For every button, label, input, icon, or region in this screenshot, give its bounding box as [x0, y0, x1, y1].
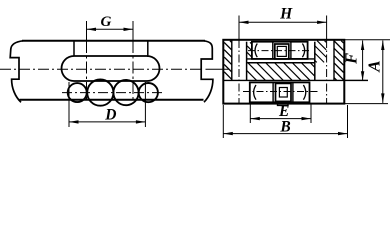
outer box	[223, 40, 344, 104]
nut left chamfer arc	[254, 85, 256, 100]
head facet line left	[272, 42, 274, 59]
bolt centerline left	[86, 21, 88, 41]
dimension B extension lines	[222, 105, 224, 138]
left wall inner step	[231, 40, 233, 81]
head right chamfer arc	[302, 44, 304, 58]
recess wall / belt left edge	[246, 42, 248, 81]
dimension E extension lines	[249, 104, 251, 123]
bottom edge extension right (A)	[344, 103, 388, 105]
dimension H line	[239, 21, 327, 23]
bolt centerline right	[132, 21, 134, 41]
belt block hatch	[311, 63, 315, 67]
head facet line right	[290, 42, 292, 59]
head centerline	[248, 50, 311, 52]
svg-text:G: G	[100, 14, 111, 30]
head left chamfer arc	[255, 44, 257, 58]
nut facet line right	[292, 82, 294, 102]
belt bottom edge	[20, 99, 204, 101]
coil circle 1	[68, 83, 87, 102]
coil circle 4	[139, 83, 158, 102]
head ledge line	[247, 58, 315, 60]
top edge extension right (F/A)	[344, 39, 390, 41]
head square outer	[275, 44, 289, 59]
coil circle 2	[87, 80, 113, 106]
svg-text:H: H	[279, 6, 293, 23]
bolt tip below	[278, 102, 289, 105]
nut square outer	[276, 83, 292, 101]
dimension H extension right	[326, 16, 328, 41]
top flank hatch left	[250, 42, 252, 44]
bolt head outline	[252, 42, 308, 59]
dimension H extension left	[238, 16, 240, 41]
inner wall line right (H extension, dash-dot)	[326, 40, 328, 104]
recess wall / belt right edge	[314, 42, 316, 81]
circle row centerline	[62, 92, 162, 94]
svg-text:A: A	[365, 60, 384, 72]
plate right tab edge	[147, 41, 149, 57]
nut outline	[250, 82, 310, 102]
belt top edge	[22, 40, 205, 42]
dimension D extension lines	[68, 82, 70, 127]
svg-text:D: D	[104, 106, 116, 123]
dimension D line	[69, 121, 145, 123]
plate left tab edge	[73, 41, 75, 56]
coil circle 3	[113, 80, 138, 105]
dimension B line	[223, 133, 347, 135]
left wall hatch	[230, 41, 232, 43]
belt top edge	[247, 62, 315, 64]
inner wall line left (H extension, dash-dot)	[238, 40, 240, 104]
belt right break edge	[201, 41, 213, 102]
svg-text:B: B	[279, 118, 290, 135]
right wall inner step	[333, 40, 335, 81]
nut facet line left	[272, 82, 274, 102]
fastener plate (stadium outline)	[62, 56, 160, 81]
F bottom extension	[345, 79, 368, 81]
right wall hatch	[341, 41, 343, 43]
top flank hatch right	[325, 41, 327, 43]
nut right chamfer arc	[303, 85, 305, 100]
dimension G line	[87, 28, 134, 30]
svg-text:F: F	[342, 53, 361, 65]
belt left break edge	[10, 41, 23, 103]
belt centerline	[0, 68, 203, 70]
dimension E line	[250, 118, 311, 120]
dimension F line	[362, 41, 364, 81]
belt bottom edge / wall step / F extension	[223, 79, 368, 81]
dimension A line	[382, 41, 384, 103]
head square inner	[277, 46, 286, 56]
nut square inner	[279, 88, 287, 98]
nut centerline	[243, 91, 318, 93]
